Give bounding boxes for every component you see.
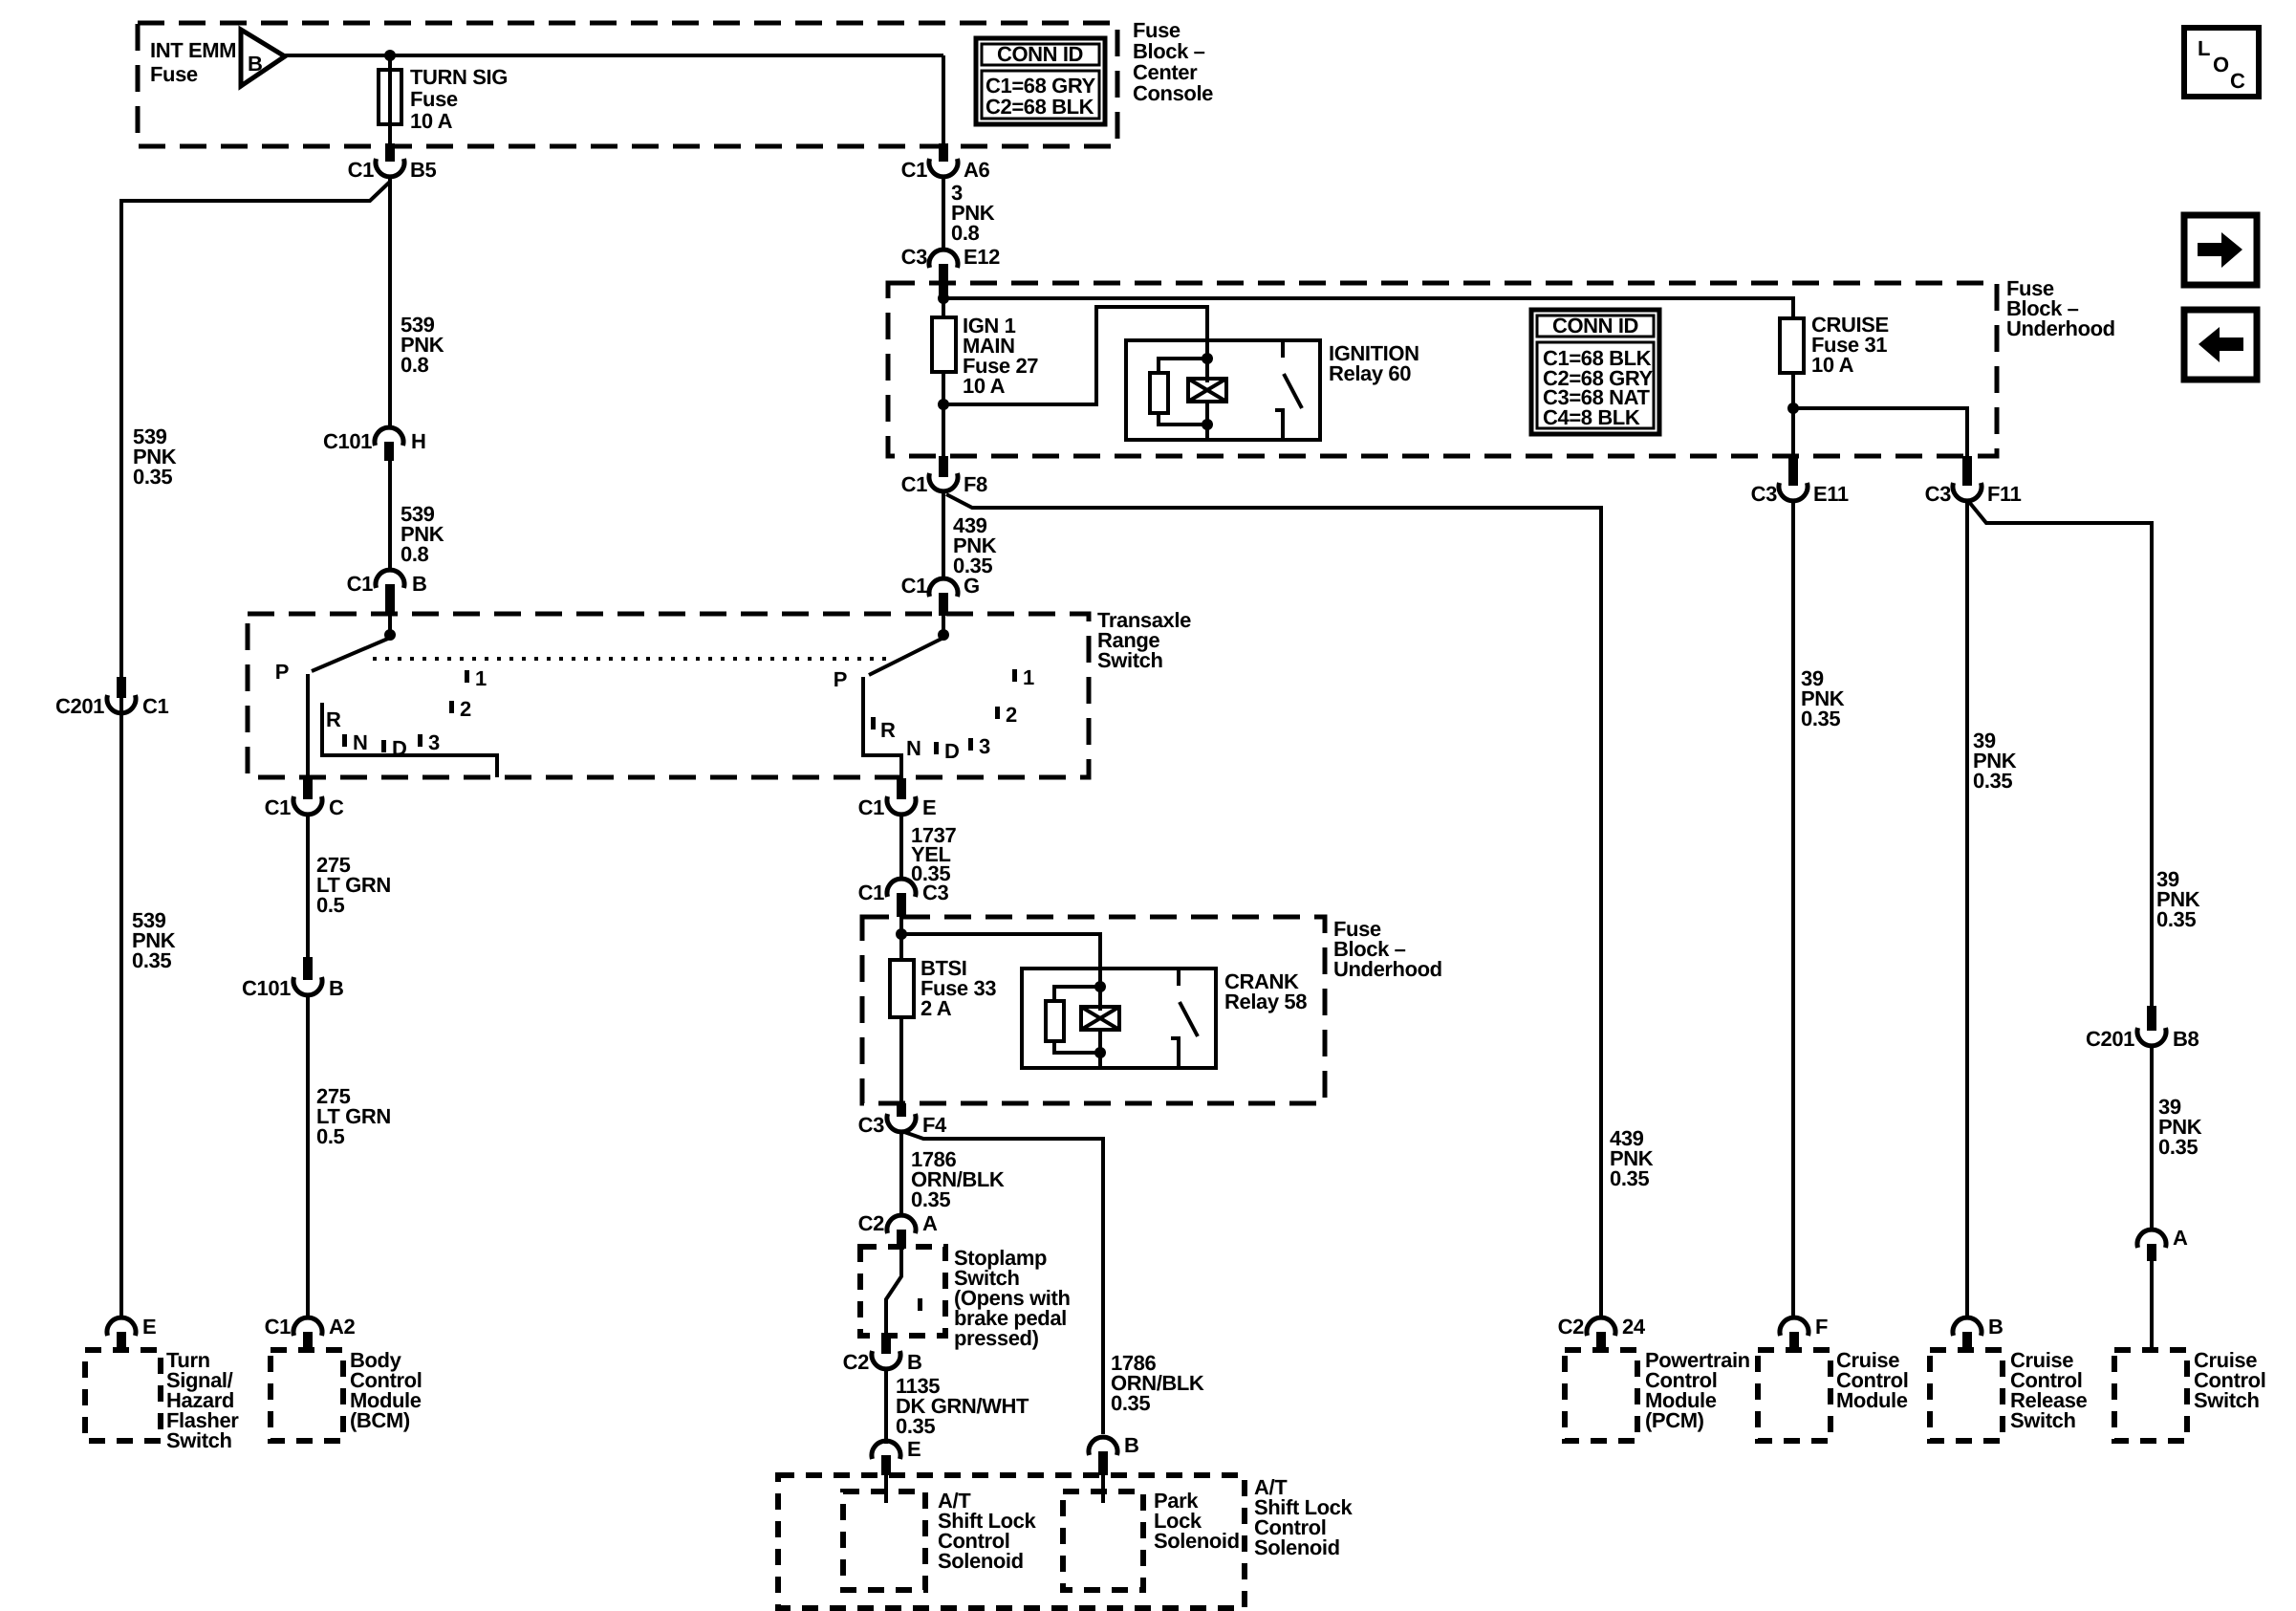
cruise control release switch box xyxy=(1930,1350,2003,1441)
label: 1135 DK GRN/WHT 0.35 xyxy=(896,1374,1029,1438)
svg-text:Fuse: Fuse xyxy=(150,62,198,86)
svg-text:10 A: 10 A xyxy=(1811,353,1854,377)
fuse block - underhood 2 (dashed box) xyxy=(862,917,1325,1103)
svg-text:C: C xyxy=(2230,69,2245,93)
svg-text:F8: F8 xyxy=(964,472,987,496)
powertrain control module (PCM) box xyxy=(1565,1350,1637,1441)
label: Body Control Module (BCM) xyxy=(350,1348,422,1432)
connector C1 E xyxy=(858,778,937,819)
svg-text:C3: C3 xyxy=(922,881,948,904)
svg-text:0.35: 0.35 xyxy=(1111,1391,1150,1415)
svg-text:C: C xyxy=(329,795,344,819)
label: 275 LT GRN 0.5 (lower) xyxy=(316,1084,391,1148)
relay 60 switch xyxy=(1275,340,1302,440)
label: 39 PNK 0.35 (switch col lower) xyxy=(2158,1095,2202,1159)
svg-text:C3: C3 xyxy=(1751,482,1777,506)
connector C1 G xyxy=(901,574,980,616)
svg-text:24: 24 xyxy=(1622,1315,1646,1339)
left switch contact 2 xyxy=(449,697,471,721)
svg-text:Underhood: Underhood xyxy=(1333,957,1442,981)
CONN ID table (center console) xyxy=(976,38,1105,124)
label: Cruise Control Release Switch xyxy=(2010,1348,2088,1432)
right switch contact 2 xyxy=(995,703,1017,727)
svg-text:G: G xyxy=(964,574,980,598)
label: 439 PNK 0.35 (PCM col) xyxy=(1610,1126,1654,1190)
right switch contact 1 xyxy=(1012,665,1034,689)
svg-text:B: B xyxy=(329,976,344,1000)
svg-text:0.35: 0.35 xyxy=(2158,1135,2198,1159)
label: Fuse Block - Center Console xyxy=(1133,18,1213,105)
label: 1737 YEL 0.35 xyxy=(911,823,957,885)
svg-text:E12: E12 xyxy=(964,245,1000,269)
connector A (cruise switch) xyxy=(2137,1226,2188,1261)
connector C1 F8 xyxy=(901,456,987,496)
mechanical link (dotted) xyxy=(373,657,887,661)
relay 60 box xyxy=(1126,340,1320,440)
wire: F8 branch to PCM column xyxy=(946,494,1601,1319)
node: relay 58 coil bottom xyxy=(1094,1047,1106,1058)
wire: right P down to N and out xyxy=(863,677,901,784)
connector E (shift lock) xyxy=(872,1437,921,1475)
svg-text:0.35: 0.35 xyxy=(133,465,172,489)
CONN ID table (underhood) xyxy=(1531,310,1659,434)
svg-text:A6: A6 xyxy=(964,158,989,182)
label: A/T Shift Lock Control Solenoid (inner) xyxy=(938,1489,1037,1573)
left switch contact 1 xyxy=(465,666,487,690)
svg-text:0.35: 0.35 xyxy=(911,1187,950,1211)
svg-text:C3: C3 xyxy=(858,1113,884,1137)
svg-text:C1: C1 xyxy=(142,694,168,718)
svg-text:F: F xyxy=(1815,1315,1828,1339)
svg-text:C1: C1 xyxy=(347,572,373,596)
stoplamp switch contact xyxy=(918,1298,922,1311)
node: relay feed junction xyxy=(938,399,949,410)
svg-text:Switch: Switch xyxy=(1097,648,1163,672)
wire: relay 58 feed xyxy=(901,934,1100,1011)
svg-text:B: B xyxy=(1124,1433,1139,1457)
svg-text:C1: C1 xyxy=(901,574,927,598)
svg-text:H: H xyxy=(411,429,426,453)
svg-text:R: R xyxy=(880,718,896,742)
connector C2 24 (PCM) xyxy=(1558,1315,1646,1350)
svg-text:Switch: Switch xyxy=(2010,1408,2076,1432)
svg-text:2: 2 xyxy=(460,697,471,721)
label: Stoplamp Switch (Opens with brake pedal pressed) xyxy=(954,1246,1071,1350)
fuse CRUISE Fuse 31 xyxy=(1780,313,1889,377)
svg-text:F11: F11 xyxy=(1987,482,2022,506)
svg-text:C1: C1 xyxy=(858,881,884,904)
label: 439 PNK 0.35 (at F8) xyxy=(953,513,997,577)
svg-text:C2=68 BLK: C2=68 BLK xyxy=(986,95,1094,119)
svg-text:D: D xyxy=(392,736,407,760)
svg-text:P: P xyxy=(275,660,289,684)
left switch contact 3 xyxy=(418,730,440,754)
svg-text:C1: C1 xyxy=(348,158,374,182)
node: relay 58 coil top xyxy=(1094,981,1106,992)
svg-text:2 A: 2 A xyxy=(921,996,952,1020)
relay 58 switch xyxy=(1171,969,1198,1068)
right switch contact N xyxy=(906,736,921,760)
svg-text:TURN SIG: TURN SIG xyxy=(410,65,508,89)
wire: bus to cruise fuse xyxy=(943,298,1793,320)
svg-text:C101: C101 xyxy=(323,429,372,453)
stoplamp switch blade xyxy=(886,1247,901,1336)
svg-text:0.5: 0.5 xyxy=(316,1124,345,1148)
right switch contact D xyxy=(934,739,960,763)
svg-text:N: N xyxy=(353,730,368,754)
svg-text:E: E xyxy=(922,795,936,819)
svg-text:10 A: 10 A xyxy=(410,109,453,133)
right switch contact R xyxy=(871,717,896,742)
svg-text:0.5: 0.5 xyxy=(316,893,345,917)
label: Turn Signal/Hazard Flasher Switch xyxy=(166,1348,239,1452)
label: CRANK Relay 58 xyxy=(1224,969,1307,1013)
fuse block - center console (dashed box) xyxy=(138,23,1117,146)
connector C3 E12 xyxy=(901,245,1000,296)
body control module (BCM) box xyxy=(271,1350,343,1441)
wire: BTSI to F4 xyxy=(899,1017,903,1106)
svg-text:(BCM): (BCM) xyxy=(350,1408,410,1432)
svg-text:C2: C2 xyxy=(843,1350,869,1374)
label: Fuse Block - Underhood 2 xyxy=(1333,917,1442,981)
svg-text:Switch: Switch xyxy=(166,1428,232,1452)
svg-text:B: B xyxy=(248,52,263,76)
left switch contact D xyxy=(381,736,407,760)
park lock solenoid box xyxy=(1063,1491,1143,1590)
svg-text:C1: C1 xyxy=(901,472,927,496)
node: relay 60 coil top xyxy=(1202,353,1213,364)
svg-text:0.8: 0.8 xyxy=(951,221,980,245)
wire: H down to B xyxy=(388,461,392,571)
connector E (turn signal) xyxy=(107,1315,156,1350)
label: 539 PNK 0.8 (lower) xyxy=(401,502,444,566)
svg-text:Console: Console xyxy=(1133,81,1213,105)
node: bus junction at E12 xyxy=(938,293,949,304)
wire: relay 60 feed xyxy=(943,307,1207,404)
stoplamp switch box xyxy=(860,1247,945,1336)
connector C1 B xyxy=(347,570,427,616)
node: junction at turn sig fuse xyxy=(384,50,396,61)
right P blade xyxy=(834,638,943,691)
label: Cruise Control Module xyxy=(1836,1348,1908,1412)
wire: B5 down xyxy=(388,176,392,429)
connector C1 A6 xyxy=(901,143,990,182)
node: BTSI junction xyxy=(896,928,907,940)
right switch contact 3 xyxy=(968,734,990,758)
svg-text:C3: C3 xyxy=(901,245,927,269)
wire: B into park lock box xyxy=(1101,1475,1105,1503)
svg-text:0.35: 0.35 xyxy=(2156,907,2196,931)
connector C2 B xyxy=(843,1336,922,1374)
relay 58 box xyxy=(1022,969,1216,1068)
connector B (park lock) xyxy=(1089,1433,1139,1475)
svg-text:0.35: 0.35 xyxy=(1801,707,1840,730)
svg-text:Relay 58: Relay 58 xyxy=(1224,990,1307,1013)
svg-text:C201: C201 xyxy=(55,694,104,718)
wire: G pin to junction xyxy=(942,616,945,637)
wire: down to A6 xyxy=(942,55,945,146)
svg-text:1: 1 xyxy=(475,666,487,690)
svg-text:CONN ID: CONN ID xyxy=(997,42,1083,66)
svg-text:C4=8 BLK: C4=8 BLK xyxy=(1543,405,1640,429)
svg-text:Switch: Switch xyxy=(2194,1388,2260,1412)
turn signal/hazard flasher switch box xyxy=(85,1350,161,1441)
svg-text:B: B xyxy=(1988,1315,2004,1339)
label: A/T Shift Lock Control Solenoid (outer) xyxy=(1254,1475,1354,1559)
wire: fuse 31 to E11 xyxy=(1791,373,1795,459)
wire: C down to C101 B xyxy=(306,814,310,959)
connector C1 C xyxy=(265,778,344,819)
connector C3 F4 xyxy=(858,1103,947,1137)
svg-text:0.35: 0.35 xyxy=(1610,1166,1649,1190)
wire: branch to F11 xyxy=(1793,408,1967,459)
label: 539 PNK 0.35 (left upper) xyxy=(133,425,177,489)
wire: B8 down to A xyxy=(2150,1045,2154,1230)
svg-text:Solenoid: Solenoid xyxy=(1254,1535,1340,1559)
fuse BTSI Fuse 33 2A xyxy=(890,956,996,1020)
transaxle range switch (dashed box) xyxy=(248,614,1089,777)
svg-text:C1: C1 xyxy=(265,795,291,819)
connector C3 E11 xyxy=(1751,456,1849,506)
svg-text:(PCM): (PCM) xyxy=(1645,1408,1704,1432)
svg-text:C2: C2 xyxy=(1558,1315,1584,1339)
svg-text:10 A: 10 A xyxy=(963,374,1006,398)
wire: fuse 27 to F8 xyxy=(942,372,945,459)
svg-text:0.35: 0.35 xyxy=(132,948,171,972)
svg-text:Solenoid: Solenoid xyxy=(1154,1529,1240,1553)
wire: left P down and out xyxy=(306,674,310,784)
svg-text:D: D xyxy=(944,739,960,763)
relay 58 coil xyxy=(1081,1007,1119,1068)
wire: F11 branch to switch column xyxy=(1969,502,2152,1008)
svg-text:L: L xyxy=(2198,36,2210,60)
svg-text:E: E xyxy=(907,1437,921,1461)
connector B (cruise release) xyxy=(1953,1315,2004,1350)
fuse block - underhood (dashed box) xyxy=(888,283,1997,456)
svg-text:Module: Module xyxy=(1836,1388,1908,1412)
label: IGNITION Relay 60 xyxy=(1329,341,1419,385)
connector C101 H xyxy=(323,427,426,461)
wire: A6 down to E12 xyxy=(942,176,945,250)
svg-text:3: 3 xyxy=(428,730,440,754)
svg-text:B: B xyxy=(412,572,427,596)
wire: C101 B down to A2 xyxy=(306,994,310,1319)
svg-text:C3: C3 xyxy=(1925,482,1951,506)
label: 39 PNK 0.35 (switch col upper) xyxy=(2156,867,2200,931)
wire: F11 down to B xyxy=(1965,500,1969,1319)
label: Park Lock Solenoid xyxy=(1154,1489,1240,1553)
label: 39 PNK 0.35 (E11) xyxy=(1801,666,1845,730)
svg-text:INT EMM: INT EMM xyxy=(150,38,236,62)
wire: B pin to junction xyxy=(388,616,392,637)
wire: B5 branch to left column xyxy=(121,182,390,681)
connector F (cruise control module) xyxy=(1780,1315,1828,1350)
relay 58 resistor xyxy=(1046,987,1100,1053)
switch pole left (P blade) xyxy=(275,638,390,684)
connector C3 F11 xyxy=(1925,456,2022,506)
cruise control module box xyxy=(1758,1350,1830,1441)
label: 539 PNK 0.35 (left lower) xyxy=(132,908,176,972)
node: right switch junction xyxy=(938,629,949,641)
wire: E down to C3 xyxy=(899,814,903,878)
svg-text:C1: C1 xyxy=(265,1315,291,1339)
svg-text:O: O xyxy=(2213,53,2229,76)
svg-text:pressed): pressed) xyxy=(954,1326,1039,1350)
arrow marker (left) xyxy=(2184,310,2257,380)
svg-text:2: 2 xyxy=(1006,703,1017,727)
svg-text:N: N xyxy=(906,736,921,760)
svg-text:P: P xyxy=(834,667,847,691)
relay 60 resistor xyxy=(1150,359,1207,425)
A/T shift lock control solenoid inner box xyxy=(843,1491,925,1590)
relay 60 coil xyxy=(1188,379,1226,440)
svg-text:0.8: 0.8 xyxy=(401,353,429,377)
svg-text:Solenoid: Solenoid xyxy=(938,1549,1024,1573)
wire: E into inner box xyxy=(884,1475,888,1503)
svg-text:B: B xyxy=(907,1350,922,1374)
svg-text:E11: E11 xyxy=(1813,482,1849,506)
label: 539 PNK 0.8 (upper) xyxy=(401,313,444,377)
fuse IGN 1 MAIN Fuse 27 xyxy=(932,314,1038,398)
svg-text:0.35: 0.35 xyxy=(896,1414,935,1438)
label: 39 PNK 0.35 (F11) xyxy=(1973,729,2017,793)
svg-text:C1: C1 xyxy=(858,795,884,819)
connector C1 A2 xyxy=(265,1315,356,1350)
wire: down through TURN SIG fuse xyxy=(388,55,392,146)
connector C101 B xyxy=(242,957,344,1000)
svg-text:Fuse: Fuse xyxy=(410,87,458,111)
label: Powertrain Control Module (PCM) xyxy=(1645,1348,1750,1432)
wire: triangle to A6 drop xyxy=(285,54,943,57)
label: 275 LT GRN 0.5 (upper) xyxy=(316,853,391,917)
node: cruise branch junction xyxy=(1787,403,1799,414)
svg-text:0.8: 0.8 xyxy=(401,542,429,566)
svg-text:Underhood: Underhood xyxy=(2006,316,2115,340)
label: 3 PNK 0.8 xyxy=(951,181,995,245)
svg-text:A2: A2 xyxy=(329,1315,355,1339)
connector C1 B5 xyxy=(348,143,437,182)
svg-text:CONN ID: CONN ID xyxy=(1552,314,1638,337)
svg-text:C201: C201 xyxy=(2086,1027,2134,1051)
cruise control switch box xyxy=(2114,1350,2187,1441)
wire: B down to E xyxy=(884,1368,888,1444)
svg-text:R: R xyxy=(326,708,341,731)
wire: F4 branch to park lock xyxy=(904,1132,1103,1434)
left switch contact N xyxy=(342,730,368,754)
connector C201 C1 xyxy=(55,677,168,718)
connector C2 A xyxy=(858,1211,938,1249)
wire: C3 pin into box xyxy=(899,917,903,962)
left switch R contact path xyxy=(322,703,497,777)
node: left switch junction xyxy=(384,629,396,641)
label: Fuse Block - Underhood xyxy=(2006,276,2115,340)
svg-text:A: A xyxy=(2173,1226,2188,1250)
LOC reference box xyxy=(2184,28,2259,97)
svg-text:0.35: 0.35 xyxy=(1973,769,2012,793)
svg-text:A: A xyxy=(922,1211,938,1235)
label: 1786 ORN/BLK 0.35 (left) xyxy=(911,1147,1005,1211)
svg-text:F4: F4 xyxy=(922,1113,947,1137)
wire: left column lower xyxy=(119,698,123,1319)
svg-text:C1: C1 xyxy=(901,158,927,182)
svg-text:C101: C101 xyxy=(242,976,291,1000)
node: relay 60 coil bottom xyxy=(1202,419,1213,430)
wire: E11 down to F xyxy=(1791,500,1795,1319)
svg-text:3: 3 xyxy=(979,734,990,758)
connector C1 C3 xyxy=(858,879,949,917)
svg-text:E: E xyxy=(142,1315,156,1339)
arrow marker (right) xyxy=(2184,215,2257,285)
svg-text:B8: B8 xyxy=(2173,1027,2199,1051)
svg-text:1: 1 xyxy=(1023,665,1034,689)
label: 1786 ORN/BLK 0.35 (right) xyxy=(1111,1351,1204,1415)
INT EMM Fuse label xyxy=(150,38,236,86)
label: Cruise Control Switch xyxy=(2194,1348,2265,1412)
wire: E12 pin into box xyxy=(942,283,945,319)
wire: F4 down to C2 A xyxy=(899,1131,903,1216)
A/T shift lock control solenoid outer box xyxy=(778,1475,1245,1608)
connector C201 B8 xyxy=(2086,1006,2199,1051)
fuse symbol B (triangle) xyxy=(241,30,285,86)
wire: A down to cruise switch box xyxy=(2150,1261,2154,1350)
svg-text:B5: B5 xyxy=(410,158,436,182)
svg-text:C2: C2 xyxy=(858,1211,884,1235)
label: Transaxle Range Switch xyxy=(1097,608,1191,672)
svg-text:Relay 60: Relay 60 xyxy=(1329,361,1411,385)
wire: F8 down to G xyxy=(942,490,945,579)
fuse TURN SIG 10A xyxy=(379,65,508,133)
